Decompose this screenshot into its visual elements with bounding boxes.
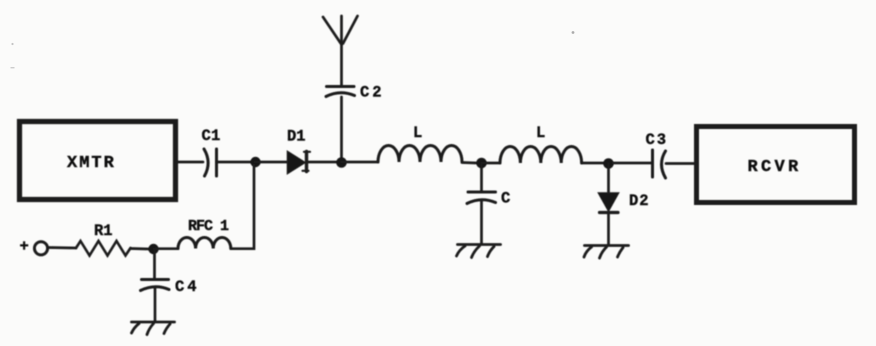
wire terminal to R1 (48, 246, 77, 249)
inductor L1 (378, 146, 462, 163)
wire C3 to RCVR (666, 162, 694, 165)
svg-text:RCVR: RCVR (748, 158, 802, 177)
node E junction dot (148, 244, 158, 254)
wire node E down to C4 (153, 249, 156, 278)
wire node A to D1 (255, 161, 287, 164)
node C junction dot (476, 158, 487, 169)
capacitor C2 (326, 87, 355, 97)
wire R1 to node E (131, 247, 150, 250)
terminal circle (34, 242, 47, 255)
wire RFC1 up to node A (231, 165, 254, 249)
wire L2 to node D (582, 162, 604, 165)
svg-text:D2: D2 (629, 192, 650, 210)
wire D2 to ground (607, 214, 610, 244)
inductor RFC1 (178, 237, 231, 248)
wire XMTR to C1 (177, 161, 203, 164)
wire antenna to node B (340, 97, 343, 158)
wire node B to L1 (342, 161, 379, 164)
antenna (323, 16, 358, 85)
wire node D down to D2 (607, 164, 610, 193)
capacitor C1 (204, 149, 217, 176)
svg-text:L: L (536, 124, 545, 142)
capacitor C3 (653, 150, 666, 178)
diode D2 (599, 193, 619, 213)
svg-text:R1: R1 (94, 222, 113, 240)
wire C1 to node A (218, 161, 252, 164)
svg-text:XMTR: XMTR (67, 154, 116, 173)
node D junction dot (603, 158, 614, 169)
svg-text:L: L (413, 124, 422, 142)
svg-text:C: C (501, 190, 510, 208)
wire node C to L2 (482, 162, 501, 165)
svg-text:+: + (20, 238, 29, 256)
svg-text:C4: C4 (175, 278, 200, 296)
wire D1 to node B (308, 161, 337, 164)
svg-text:C2: C2 (360, 84, 384, 102)
inductor L2 (500, 146, 582, 163)
node B junction dot (336, 157, 347, 168)
svg-text:C1: C1 (202, 127, 221, 145)
wire C4 to ground (154, 288, 157, 321)
svg-text:D1: D1 (287, 128, 306, 146)
svg-text:C3: C3 (646, 131, 668, 149)
node A junction dot (250, 157, 260, 167)
wire L1 to node C (462, 161, 477, 164)
capacitor C4 (141, 280, 170, 291)
capacitor C (467, 192, 496, 204)
wire node D to C3 (613, 162, 651, 165)
svg-text:RFC 1: RFC 1 (188, 218, 229, 235)
box XMTR (20, 122, 176, 200)
box RCVR (697, 127, 855, 203)
ground (below C4) (132, 322, 175, 335)
diode D1 (288, 152, 311, 174)
wire node E to RFC1 (154, 247, 179, 250)
wire capacitor C to ground (480, 201, 483, 243)
ground (below C) (457, 245, 501, 258)
ground (below D2) (584, 246, 629, 259)
wire node C down to capacitor C (480, 163, 483, 191)
resistor R1 (76, 241, 131, 256)
